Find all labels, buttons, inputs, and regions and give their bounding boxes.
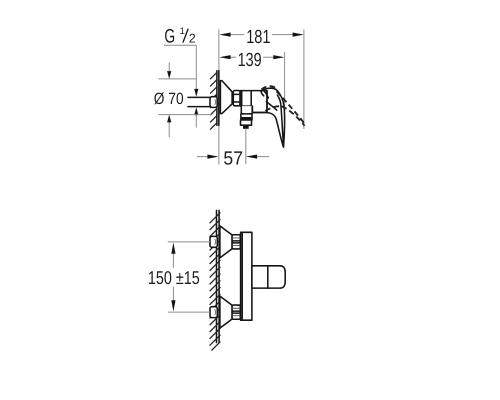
- lever raised underside dashed: [265, 106, 281, 111]
- outlet flange: [241, 114, 252, 120]
- handle plan view: [252, 266, 285, 288]
- top inlet: hex nut: [210, 236, 217, 247]
- outlet lower: [241, 120, 252, 125]
- bottom inlet: ring nut: [232, 305, 240, 319]
- wall: [216, 71, 218, 126]
- hex nut on pipe: [210, 97, 217, 108]
- svg-text:150 ±15: 150 ±15: [148, 267, 200, 288]
- extension line 139: [284, 52, 286, 131]
- bottom inlet: escutcheon cone: [220, 296, 232, 328]
- lever raised blade dashed inner: [282, 106, 305, 126]
- top inlet: ring nut: [232, 235, 240, 249]
- escutcheon (side view cone): [220, 81, 232, 114]
- dimension 139: [219, 50, 284, 71]
- lever lip: [261, 91, 264, 96]
- lever blade left edge from body bottom: [252, 113, 283, 147]
- union ring nut: [233, 91, 240, 106]
- leader G1/2 lower arrow: [195, 115, 197, 128]
- cap shoulder: [264, 91, 269, 98]
- body bar: [241, 232, 252, 320]
- extension line 181: [303, 30, 305, 130]
- lever handle solid top curve and blade outer edge: [261, 88, 285, 147]
- outlet stack below body: [241, 106, 252, 114]
- lever raised position dashed top: [261, 86, 276, 89]
- leader G1/2: [164, 45, 196, 89]
- wall hatching bottom: [210, 212, 221, 350]
- dimension 150 +/- 15: [148, 242, 210, 312]
- svg-text:Ø 70: Ø 70: [154, 90, 184, 108]
- svg-text:57: 57: [223, 148, 243, 169]
- handle seam: [267, 266, 269, 288]
- supply pipe G1/2: [188, 97, 210, 106]
- centerline to 57 dim: [245, 129, 247, 165]
- body seam lines: [242, 91, 252, 107]
- wall line bottom view: [216, 210, 218, 342]
- valve body: [240, 91, 267, 113]
- svg-text:1: 1: [180, 26, 185, 37]
- dimension 181: [219, 27, 304, 48]
- cartridge cap seam: [266, 91, 268, 113]
- svg-text:139: 139: [238, 50, 262, 71]
- wire extension line vertical at wall: [218, 30, 220, 165]
- lever raised blade dashed outer: [277, 91, 305, 126]
- svg-text:2: 2: [189, 32, 196, 46]
- svg-text:181: 181: [246, 27, 270, 48]
- bottom inlet: hex nut: [210, 307, 217, 318]
- dimension 57: [197, 148, 269, 169]
- label G 1/2: [164, 25, 195, 47]
- lever underside arc: [266, 102, 277, 110]
- lever blade inner edge: [278, 95, 284, 147]
- wall hatching: [210, 72, 217, 129]
- hose nipple: [243, 125, 249, 129]
- dimension Ø70: [154, 62, 212, 137]
- top inlet: escutcheon cone: [220, 226, 232, 258]
- svg-text:G: G: [164, 25, 175, 47]
